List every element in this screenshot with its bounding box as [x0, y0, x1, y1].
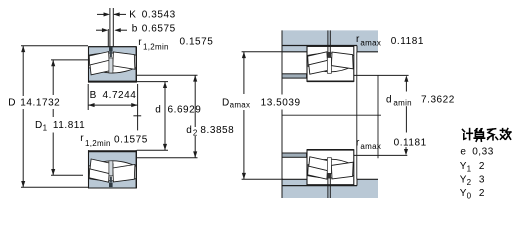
roller bottom-right — [113, 165, 135, 182]
K extension line 1 — [109, 8, 111, 47]
svg-text:d: d — [386, 94, 392, 105]
inner ring guide flange bottom — [109, 161, 113, 176]
D1 extension line top — [51, 59, 89, 61]
outer ring top (blue) — [89, 47, 137, 56]
svg-text:2: 2 — [467, 178, 472, 187]
roller bottom-right (right figure) — [331, 162, 353, 179]
svg-text:1,2min: 1,2min — [143, 43, 169, 52]
svg-text:r: r — [356, 137, 360, 148]
svg-text:1: 1 — [43, 124, 48, 133]
roller bottom-left lower — [90, 159, 113, 174]
d2 extension line bottom — [137, 157, 198, 159]
svg-text:r: r — [138, 37, 142, 48]
B extension line right — [137, 84, 139, 130]
lubrication groove notch top — [109, 47, 113, 52]
roller top-left lower — [90, 60, 113, 75]
svg-text:1,2min: 1,2min — [85, 139, 111, 148]
svg-text:e: e — [460, 146, 466, 157]
svg-text:amin: amin — [393, 99, 412, 108]
b dimension line with arrows — [96, 29, 106, 31]
d dimension line with arrows — [164, 82, 166, 151]
svg-text:r: r — [80, 133, 84, 144]
housing block top (blue) — [282, 30, 378, 51]
housing shoulder corner verticals bottom — [306, 179, 308, 186]
D1 dimension line — [52, 60, 54, 95]
svg-text:0.1181: 0.1181 — [391, 36, 424, 47]
shaft shoulder top — [282, 74, 307, 78]
B extension line left — [87, 84, 89, 110]
d2 extension line top — [137, 74, 198, 76]
shaft surface line top right — [354, 74, 409, 76]
svg-text:13.5039: 13.5039 — [261, 97, 301, 108]
Damax extension line bottom — [242, 178, 283, 180]
inner ring guide flange top — [109, 58, 113, 73]
lubrication hole top — [110, 52, 112, 58]
shaft end face line — [377, 75, 379, 158]
roller bottom-left upper (right figure) — [308, 166, 328, 179]
svg-text:0.1575: 0.1575 — [180, 37, 214, 48]
guide flange top (right figure) — [327, 58, 331, 74]
svg-text:0.3543: 0.3543 — [142, 9, 176, 20]
svg-text:11.811: 11.811 — [53, 120, 85, 131]
bearing top: bore face line — [88, 81, 137, 83]
svg-text:6.6929: 6.6929 — [168, 104, 202, 115]
bearing bottom: face lines — [88, 150, 90, 188]
svg-text:0: 0 — [467, 191, 472, 200]
roller bottom-left upper — [89, 168, 109, 182]
roller top-left lower (right figure) — [309, 60, 331, 74]
roller bottom-left lower (right figure) — [309, 157, 331, 172]
B dimension line with arrows — [88, 104, 137, 106]
Damax extension line top — [242, 51, 282, 53]
housing shoulder corner verticals top — [306, 46, 308, 53]
bearing bottom: bore face line — [88, 150, 137, 152]
bearing axis tick — [133, 115, 141, 117]
D extension line bottom — [21, 186, 88, 188]
housing bore line top — [282, 45, 357, 47]
housing bore line bottom — [282, 185, 357, 187]
svg-text:14.1732: 14.1732 — [20, 97, 60, 108]
svg-text:7.3622: 7.3622 — [421, 94, 455, 105]
D extension line top — [21, 45, 88, 47]
oil hole lines top (right figure) — [327, 30, 329, 57]
bearing top: face lines — [88, 47, 90, 83]
inner raceway top — [307, 66, 353, 72]
roller top-left upper (right figure) — [308, 52, 328, 65]
lubrication hole bottom — [110, 177, 112, 183]
shaft shoulder bottom — [282, 153, 307, 157]
guide flange bottom (right figure) — [327, 158, 331, 174]
svg-text:3: 3 — [479, 174, 485, 185]
heading 计算系数 (drawn strokes) — [463, 129, 512, 142]
svg-text:0.1181: 0.1181 — [394, 137, 427, 148]
svg-text:2: 2 — [193, 129, 198, 138]
damin dimension line with arrows — [404, 75, 408, 81]
shaft axis line — [282, 114, 381, 116]
inner ring bottom (blue) — [89, 151, 137, 166]
K/b extension line left — [107, 29, 109, 47]
outer ring bottom (blue) — [89, 179, 137, 188]
svg-text:4.7244: 4.7244 — [103, 90, 137, 101]
housing shoulder bottom line top — [282, 51, 307, 53]
shaft surface line bottom right — [354, 154, 408, 156]
housing block bottom (blue) — [282, 179, 378, 198]
svg-text:2: 2 — [479, 188, 485, 199]
arrangement left face line — [281, 30, 283, 94]
bearing bottom (right figure, outline) — [307, 150, 354, 185]
svg-text:amax: amax — [360, 39, 381, 48]
svg-text:0.1575: 0.1575 — [114, 135, 148, 146]
D1 extension line bottom — [51, 174, 83, 176]
bearing top (right figure, outline) — [307, 46, 354, 81]
d extension line bottom — [137, 149, 168, 151]
svg-text:d: d — [155, 104, 161, 115]
svg-text:d: d — [186, 125, 192, 136]
svg-text:8.3858: 8.3858 — [200, 125, 234, 136]
svg-text:B: B — [90, 90, 97, 101]
outer raceway bottom — [307, 176, 353, 178]
svg-text:0,33: 0,33 — [472, 146, 494, 157]
inner raceway bottom — [307, 159, 353, 165]
bearing top half base — [89, 47, 137, 82]
d extension line top — [137, 81, 168, 83]
Damax dimension line — [243, 52, 245, 94]
housing corner connector line — [356, 52, 358, 180]
svg-text:0.6575: 0.6575 — [142, 24, 176, 35]
roller top-right (right figure) — [331, 52, 353, 69]
K extension line 2 — [112, 8, 114, 47]
oil hole lines bottom (right figure) — [327, 174, 329, 198]
inner ring top (blue) — [89, 68, 137, 82]
svg-text:amax: amax — [360, 142, 381, 151]
svg-text:D: D — [8, 97, 16, 108]
svg-text:b: b — [132, 24, 138, 35]
K dimension line with arrows — [97, 13, 107, 15]
svg-text:K: K — [129, 9, 136, 20]
housing shoulder top line bottom — [282, 178, 307, 180]
svg-text:2: 2 — [479, 161, 485, 172]
svg-text:1: 1 — [467, 164, 472, 173]
D dimension line — [22, 46, 24, 96]
roller top-right — [113, 52, 135, 69]
svg-text:amax: amax — [230, 101, 251, 110]
lubrication groove notch bottom — [109, 183, 113, 188]
outer raceway top — [307, 53, 353, 55]
d2 dimension line with arrows — [194, 75, 196, 127]
bore face line bottom (right figure) — [307, 149, 354, 151]
bore face line top (right figure) — [307, 80, 354, 82]
roller top-left upper — [89, 52, 109, 66]
svg-text:r: r — [356, 34, 360, 45]
bearing bottom half base — [89, 151, 137, 188]
